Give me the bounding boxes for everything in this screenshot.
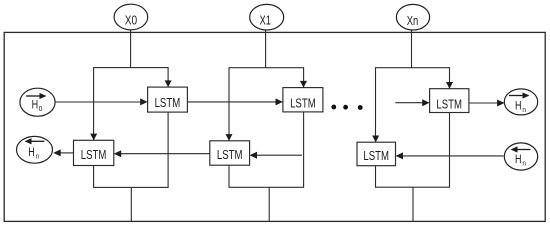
svg-text:H: H bbox=[515, 154, 522, 166]
svg-text:H: H bbox=[515, 100, 522, 112]
dot 2 bbox=[343, 105, 348, 110]
wire: H0 to LSTM F1 bbox=[55, 101, 141, 103]
LSTM box B2 bbox=[210, 141, 250, 165]
svg-text:H: H bbox=[28, 147, 35, 159]
svg-text:Xn: Xn bbox=[407, 13, 419, 28]
node: column 1 loop rectangle bbox=[94, 68, 169, 188]
LSTM box B3 bbox=[357, 142, 396, 166]
arrowhead: down into B3 top bbox=[372, 136, 379, 143]
wire: column 2 output descender bbox=[268, 187, 270, 221]
LSTM box F2 bbox=[283, 88, 323, 112]
arrowhead: left into B2 right bbox=[250, 152, 257, 159]
LSTM box F1 bbox=[148, 87, 188, 112]
state ellipse Hn reverse input (bottom right) bbox=[504, 143, 537, 170]
wire: Hn reverse input to LSTM B3 bbox=[403, 155, 504, 157]
wire: toward LSTM B2 bbox=[256, 154, 302, 156]
dot 1 bbox=[331, 105, 336, 110]
arrowhead: left into B1 right bbox=[114, 150, 121, 157]
arrowhead: right into F3 left bbox=[422, 99, 429, 106]
outer container box bbox=[4, 32, 545, 221]
wire: column 3 output descender bbox=[412, 187, 414, 221]
svg-text:LSTM: LSTM bbox=[290, 95, 316, 110]
state ellipse Hn reverse output (bottom left) bbox=[17, 136, 53, 163]
wire: X1 stem bbox=[265, 30, 267, 68]
svg-text:0: 0 bbox=[39, 106, 43, 113]
LSTM box F3 bbox=[430, 89, 469, 113]
arrowhead: right into F1 left bbox=[140, 98, 147, 105]
state ellipse H0 (forward initial) bbox=[20, 88, 55, 116]
LSTM box B1 bbox=[74, 140, 114, 165]
dot 3 bbox=[358, 105, 363, 110]
svg-text:H: H bbox=[32, 99, 38, 111]
arrowheads bbox=[53, 80, 504, 159]
state ellipse Hn forward output (top right) bbox=[504, 89, 537, 115]
wire: LSTM F1 to LSTM F2 bbox=[187, 101, 276, 103]
node: column 2 loop rectangle bbox=[229, 68, 304, 188]
svg-text:LSTM: LSTM bbox=[155, 95, 181, 110]
input ellipse X1 bbox=[250, 4, 284, 30]
svg-text:LSTM: LSTM bbox=[363, 148, 389, 163]
arrowhead: down into F1 top bbox=[165, 80, 172, 87]
wire: Xn stem bbox=[411, 30, 413, 68]
wire: LSTM B2 to LSTM B1 bbox=[121, 153, 210, 155]
arrowhead: right into Hn ellipse bbox=[497, 100, 504, 107]
svg-text:n: n bbox=[522, 160, 526, 167]
arrowhead: down into F2 top bbox=[300, 81, 307, 88]
arrowhead: left into B3 right bbox=[396, 152, 403, 159]
svg-text:n: n bbox=[522, 107, 526, 114]
ellipsis dots between columns 2 and 3 bbox=[331, 105, 362, 110]
arrowhead: down into B1 top bbox=[90, 134, 97, 141]
wire: X0 stem bbox=[130, 30, 132, 68]
arrowhead: down into B2 top bbox=[226, 134, 233, 141]
node: column 3 loop rectangle bbox=[376, 68, 450, 188]
input ellipse X0 bbox=[114, 4, 148, 30]
wire: LSTM B1 to reverse H output bbox=[60, 152, 74, 154]
arrowhead: right into F2 left bbox=[276, 98, 283, 105]
svg-text:LSTM: LSTM bbox=[436, 96, 462, 111]
svg-text:LSTM: LSTM bbox=[81, 147, 107, 162]
wire: LSTM F3 to Hn output bbox=[469, 102, 498, 104]
svg-text:LSTM: LSTM bbox=[217, 147, 243, 162]
svg-text:X0: X0 bbox=[125, 13, 137, 28]
wire: into LSTM F3 bbox=[395, 102, 423, 104]
svg-text:X1: X1 bbox=[259, 13, 271, 28]
wire: column 1 output descender bbox=[130, 187, 132, 221]
input ellipse Xn bbox=[396, 4, 429, 30]
arrowhead: down into F3 top bbox=[446, 82, 453, 89]
arrowhead: left into reverse H ellipse bbox=[53, 149, 60, 156]
svg-text:n: n bbox=[36, 154, 40, 161]
